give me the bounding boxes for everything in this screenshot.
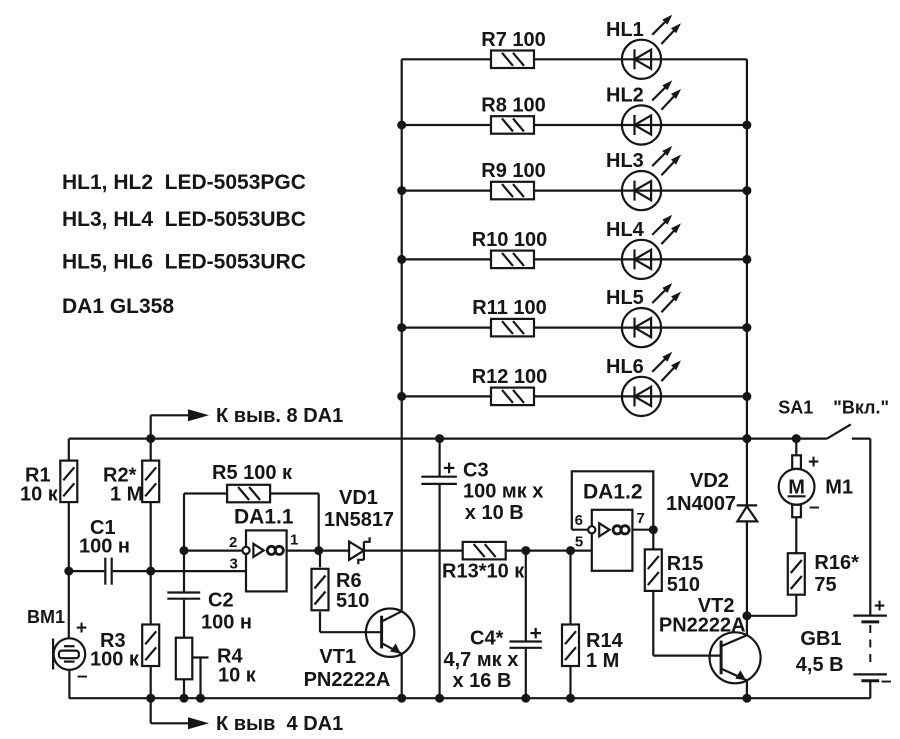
node rail/VD2 bbox=[742, 434, 751, 443]
wire row R10 left bbox=[402, 258, 491, 260]
svg-text:10 к: 10 к bbox=[218, 665, 257, 687]
svg-text:100 мк х: 100 мк х bbox=[463, 481, 543, 503]
svg-text:C3: C3 bbox=[463, 460, 489, 482]
switch SA1 bbox=[778, 397, 889, 438]
wire row through LED HL2 to right bus bbox=[534, 124, 747, 126]
node R4 tap ground bbox=[196, 694, 205, 703]
resistor R9 bbox=[481, 160, 546, 199]
wire DA1.1 output bbox=[287, 549, 350, 551]
wire R6 to VT1 base bbox=[320, 612, 382, 633]
wire row R7 left bbox=[402, 58, 491, 60]
wire node to R6 bbox=[319, 551, 321, 568]
svg-text:HL5: HL5 bbox=[606, 287, 644, 309]
svg-text:+: + bbox=[808, 452, 819, 473]
wire row through LED HL6 to right bus bbox=[534, 395, 747, 397]
resistor R2 bbox=[103, 461, 159, 506]
wire rail to R2 bbox=[150, 439, 152, 461]
svg-text:5: 5 bbox=[575, 534, 583, 551]
node VT2 collector bbox=[742, 611, 751, 620]
svg-text:R10 100: R10 100 bbox=[472, 229, 548, 251]
arrow to pin 8 DA1 bbox=[151, 405, 344, 427]
wire R2 to node bbox=[150, 502, 152, 571]
svg-text:К выв. 8 DA1: К выв. 8 DA1 bbox=[216, 405, 343, 427]
wire BM1 node to C1 bbox=[69, 570, 105, 572]
wire R15 to VT2 base bbox=[653, 591, 721, 656]
wire bottom ground rail bbox=[69, 697, 871, 699]
svg-text:GB1: GB1 bbox=[800, 628, 841, 650]
capacitor C1 bbox=[79, 517, 130, 585]
svg-text:1: 1 bbox=[290, 532, 298, 549]
svg-text:R12 100: R12 100 bbox=[472, 366, 548, 388]
junction left bus row 5 bbox=[397, 323, 406, 332]
wire switch to battery bbox=[869, 439, 871, 616]
resistor R4 bbox=[176, 638, 257, 687]
svg-text:3: 3 bbox=[230, 556, 238, 573]
node C4 ground bbox=[521, 694, 530, 703]
svg-text:–: – bbox=[881, 671, 892, 692]
resistor R12 bbox=[472, 366, 548, 405]
svg-text:х 10 В: х 10 В bbox=[465, 502, 524, 524]
svg-text:–: – bbox=[77, 666, 88, 687]
junction left bus row 3 bbox=[397, 186, 406, 195]
wire left LED cathode bus to VT1 collector bbox=[401, 59, 403, 611]
svg-text:"Вкл.": "Вкл." bbox=[833, 397, 889, 417]
wire node up to R5 bbox=[183, 494, 185, 551]
wire node to DA1.1 pin 3 bbox=[151, 570, 246, 572]
svg-text:R15: R15 bbox=[667, 553, 704, 575]
wire R1 to node bbox=[68, 502, 70, 571]
wire node to BM1 bbox=[68, 571, 70, 638]
arrow to pin 4 DA1 bbox=[151, 698, 344, 735]
junction right bus row 3 bbox=[742, 186, 751, 195]
svg-text:510: 510 bbox=[336, 590, 369, 612]
junction left bus row 2 bbox=[397, 121, 406, 130]
transistor VT2 bbox=[659, 595, 761, 683]
svg-text:HL3: HL3 bbox=[606, 150, 644, 172]
svg-text:R9 100: R9 100 bbox=[481, 160, 546, 182]
svg-text:+: + bbox=[76, 618, 87, 639]
wire row R9 left bbox=[402, 190, 491, 192]
svg-text:10 к: 10 к bbox=[20, 484, 59, 506]
wire R4 wiper tap bbox=[192, 658, 208, 699]
svg-text:VD2: VD2 bbox=[690, 470, 729, 492]
svg-text:SA1: SA1 bbox=[778, 397, 813, 417]
svg-text:R14: R14 bbox=[586, 630, 624, 652]
wire row through LED HL3 to right bus bbox=[534, 190, 747, 192]
junction right bus row 2 bbox=[742, 121, 751, 130]
wire C3 to ground bbox=[439, 484, 441, 698]
node rail/M1 bbox=[792, 434, 801, 443]
svg-text:DA1.1: DA1.1 bbox=[234, 506, 294, 529]
capacitor C3 bbox=[421, 460, 543, 525]
resistor R10 bbox=[472, 229, 548, 268]
wire BM1 to ground rail bbox=[68, 670, 70, 698]
wire node to R14 bbox=[569, 551, 571, 625]
svg-text:VD1: VD1 bbox=[339, 487, 378, 509]
svg-text:4,7 мк х: 4,7 мк х bbox=[444, 649, 519, 671]
LED HL5 bbox=[606, 283, 681, 347]
wire R3 to ground bbox=[150, 666, 152, 698]
wire DA1.2 feedback bbox=[572, 471, 654, 529]
wire feedback to pin 6 bbox=[572, 529, 588, 531]
svg-text:75: 75 bbox=[814, 574, 836, 596]
svg-text:DA1.2: DA1.2 bbox=[583, 481, 643, 504]
svg-text:7: 7 bbox=[637, 510, 645, 527]
svg-text:4,5 В: 4,5 В bbox=[796, 654, 844, 676]
wire row through LED HL1 to right bus bbox=[534, 58, 747, 60]
svg-text:C4*: C4* bbox=[470, 628, 504, 650]
wire R5 to output node bbox=[270, 494, 319, 551]
svg-text:510: 510 bbox=[667, 574, 700, 596]
resistor R3 bbox=[90, 625, 159, 671]
resistor R15 bbox=[645, 549, 704, 596]
diode VD2 bbox=[666, 470, 757, 521]
node R4 ground bbox=[180, 694, 189, 703]
transistor VT1 bbox=[304, 609, 415, 692]
wire node to R3 bbox=[150, 571, 152, 625]
wire rail to C3 bbox=[439, 439, 441, 477]
wire C1 to node bbox=[113, 570, 151, 572]
node VT1 emitter ground bbox=[397, 694, 406, 703]
op-amp DA1.1 bbox=[229, 506, 298, 592]
wire row R12 left bbox=[402, 395, 491, 397]
resistor R1 bbox=[20, 461, 77, 506]
wire VT1 emitter to ground bbox=[401, 654, 403, 698]
junction left bus row 4 bbox=[397, 255, 406, 264]
wire rail to M1 bbox=[795, 439, 797, 456]
svg-text:R7 100: R7 100 bbox=[481, 29, 546, 51]
resistor R13 bbox=[442, 542, 525, 583]
svg-text:+: + bbox=[874, 596, 885, 617]
svg-text:R16*: R16* bbox=[814, 552, 859, 574]
node R14 ground bbox=[566, 694, 575, 703]
wire to R5 bbox=[184, 492, 228, 494]
node pin2/R5/C2 bbox=[180, 546, 189, 555]
svg-text:6: 6 bbox=[575, 512, 583, 529]
wire VD1 to R13 bbox=[364, 549, 463, 551]
resistor R5 bbox=[212, 462, 293, 502]
svg-text:100 к: 100 к bbox=[90, 649, 140, 671]
wire node to C4 bbox=[525, 551, 527, 642]
wire right LED anode bus bbox=[746, 59, 748, 438]
wire R14 to ground bbox=[569, 666, 571, 698]
svg-text:DA1 GL358: DA1 GL358 bbox=[62, 295, 174, 318]
svg-text:100 н: 100 н bbox=[79, 536, 130, 558]
resistor R6 bbox=[312, 569, 370, 612]
capacitor C2 bbox=[167, 590, 252, 634]
battery GB1 bbox=[796, 596, 892, 692]
motor M1 bbox=[779, 452, 853, 518]
svg-text:HL1, HL2 LED-5053PGC: HL1, HL2 LED-5053PGC bbox=[62, 171, 306, 194]
svg-text:100 н: 100 н bbox=[201, 612, 252, 634]
LED HL2 bbox=[606, 80, 681, 144]
node C4 tap bbox=[521, 546, 530, 555]
node C3 ground bbox=[435, 694, 444, 703]
svg-text:ВМ1: ВМ1 bbox=[27, 607, 65, 627]
svg-text:2: 2 bbox=[229, 534, 237, 551]
svg-text:х 16 В: х 16 В bbox=[453, 670, 512, 692]
node rail/R2 bbox=[146, 434, 155, 443]
wire VT2 emitter to ground bbox=[746, 680, 748, 698]
wire R4 to ground bbox=[183, 679, 185, 698]
wire row R11 left bbox=[402, 327, 491, 329]
svg-text:1 М: 1 М bbox=[586, 650, 619, 672]
wire top supply rail bbox=[69, 438, 827, 440]
svg-text:R13*10 к: R13*10 к bbox=[442, 561, 525, 583]
wire battery to ground rail bbox=[869, 682, 871, 699]
svg-text:–: – bbox=[809, 497, 820, 518]
wire node to DA1.1 pin 2 bbox=[184, 549, 242, 551]
svg-text:1N4007: 1N4007 bbox=[666, 493, 736, 515]
resistor R16 bbox=[788, 552, 859, 596]
svg-text:HL3, HL4 LED-5053UBC: HL3, HL4 LED-5053UBC bbox=[62, 208, 306, 231]
op-amp DA1.2 bbox=[575, 481, 645, 571]
wire R13 to DA1.2 pin 5 bbox=[505, 549, 592, 551]
svg-text:R6: R6 bbox=[336, 570, 362, 592]
junction right bus row 6 bbox=[742, 392, 751, 401]
wire row through LED HL5 to right bus bbox=[534, 327, 747, 329]
svg-text:R8 100: R8 100 bbox=[481, 95, 546, 117]
node DA1.2 output bbox=[649, 525, 658, 534]
junction right bus row 5 bbox=[742, 323, 751, 332]
wire R16 to collector node bbox=[747, 594, 796, 616]
node ground/R3 bbox=[146, 694, 155, 703]
wire rail to R1 bbox=[68, 439, 70, 461]
diode VD1 bbox=[324, 487, 394, 564]
wire collector node down bbox=[746, 616, 748, 635]
svg-text:C2: C2 bbox=[208, 590, 234, 612]
wire C2 to R4 bbox=[183, 600, 185, 638]
node R1/C1/BM1 bbox=[64, 567, 73, 576]
svg-text:HL6: HL6 bbox=[606, 356, 644, 378]
wire node up to arrow bbox=[150, 415, 152, 438]
svg-text:К выв 4 DA1: К выв 4 DA1 bbox=[216, 713, 343, 735]
wire M1 to R16 bbox=[795, 517, 797, 554]
svg-text:HL1: HL1 bbox=[606, 19, 644, 41]
svg-text:HL5, HL6 LED-5053URC: HL5, HL6 LED-5053URC bbox=[62, 251, 306, 274]
resistor R8 bbox=[481, 95, 546, 134]
svg-text:PN2222A: PN2222A bbox=[304, 669, 391, 691]
resistor R14 bbox=[562, 625, 624, 673]
svg-text:1 М: 1 М bbox=[110, 484, 143, 506]
LED HL1 bbox=[606, 15, 681, 79]
svg-text:R11 100: R11 100 bbox=[472, 297, 547, 319]
svg-text:PN2222A: PN2222A bbox=[659, 615, 746, 637]
svg-text:VT1: VT1 bbox=[319, 646, 356, 668]
wire C4 to ground bbox=[525, 649, 527, 698]
resistor R11 bbox=[472, 297, 547, 336]
resistor R7 bbox=[481, 29, 546, 68]
node rail/C3 bbox=[435, 434, 444, 443]
wire node down to C2 bbox=[183, 551, 185, 593]
wire node to R15 bbox=[652, 530, 654, 550]
wire row R8 left bbox=[402, 124, 491, 126]
node output/R5/R6 bbox=[314, 546, 323, 555]
node R2/C1/R3/pin3 bbox=[146, 567, 155, 576]
svg-text:HL2: HL2 bbox=[606, 85, 644, 107]
svg-text:HL4: HL4 bbox=[606, 219, 645, 241]
wire row through LED HL4 to right bus bbox=[534, 258, 747, 260]
svg-text:R5 100 к: R5 100 к bbox=[212, 462, 293, 484]
wire DA1.2 output bbox=[632, 529, 653, 531]
junction right bus row 4 bbox=[742, 255, 751, 264]
wire rail to VD2 bbox=[746, 439, 748, 506]
capacitor C4 bbox=[444, 628, 542, 693]
LED HL4 bbox=[606, 215, 681, 279]
microphone BM1 bbox=[27, 607, 88, 687]
junction left bus row 6 bbox=[397, 392, 406, 401]
LED HL3 bbox=[606, 146, 681, 210]
parts list text bbox=[62, 171, 306, 318]
svg-text:1N5817: 1N5817 bbox=[324, 509, 394, 531]
wire VD2 to collector node bbox=[746, 521, 748, 615]
LED HL6 bbox=[606, 352, 681, 416]
svg-text:M1: M1 bbox=[825, 477, 853, 499]
node VT2 emitter ground bbox=[742, 694, 751, 703]
node R14 tap bbox=[566, 546, 575, 555]
